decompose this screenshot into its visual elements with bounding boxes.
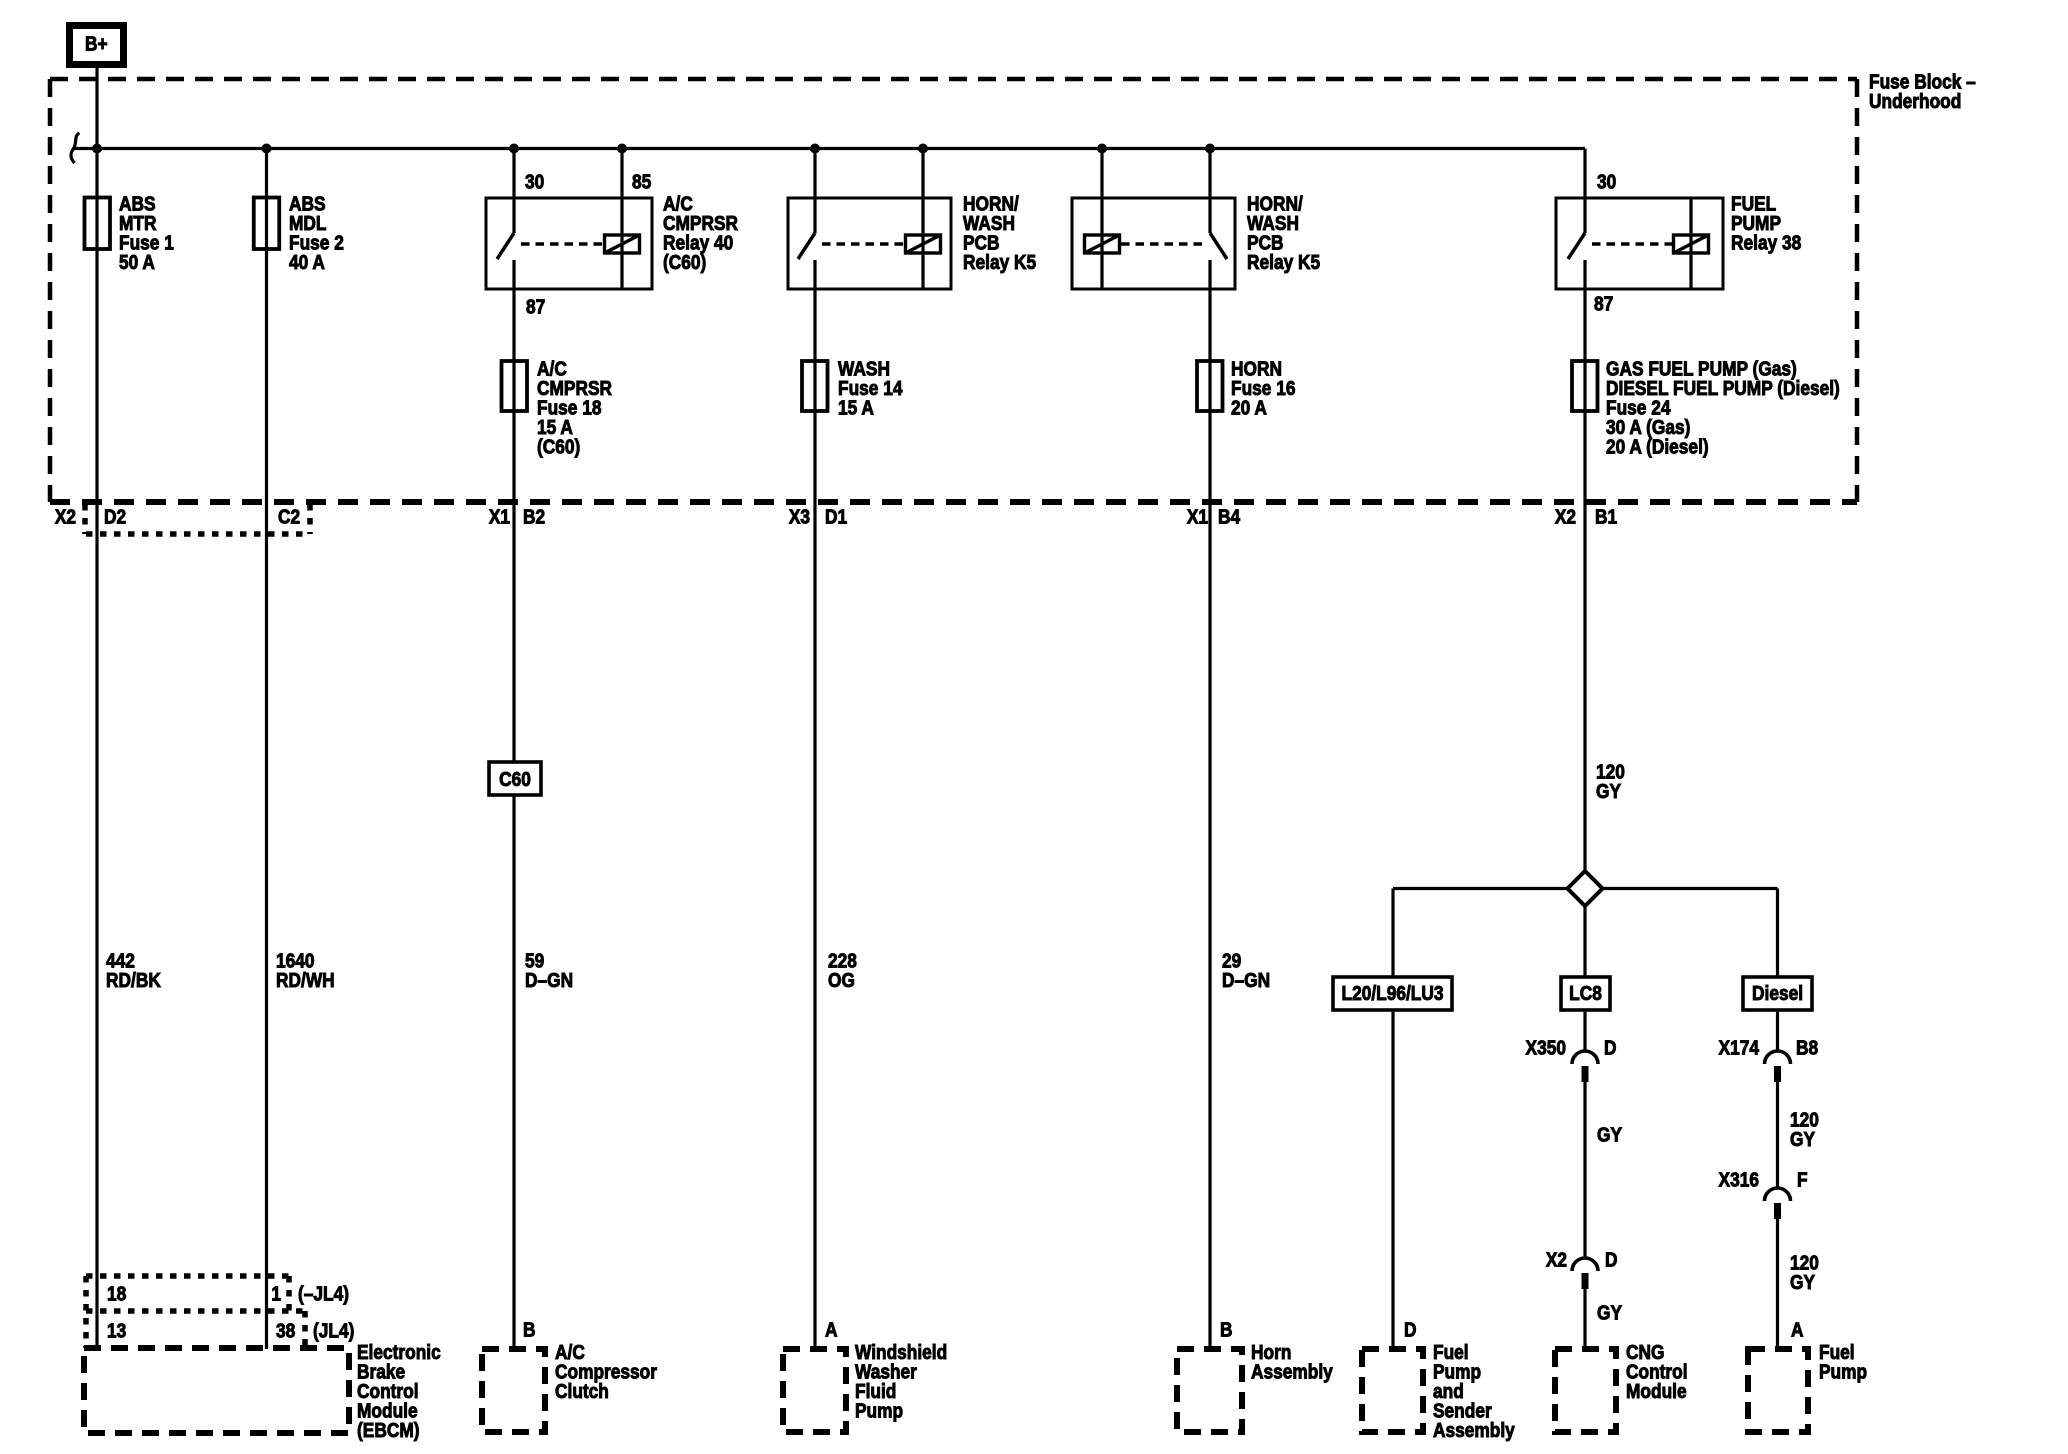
svg-text:Module: Module	[1626, 1381, 1687, 1404]
svg-text:(EBCM): (EBCM)	[357, 1420, 420, 1443]
svg-text:LC8: LC8	[1569, 983, 1602, 1006]
svg-text:X3: X3	[789, 506, 810, 529]
svg-text:B: B	[1220, 1319, 1233, 1342]
svg-text:B4: B4	[1218, 506, 1241, 529]
svg-text:X1: X1	[489, 506, 511, 529]
svg-text:(–JL4): (–JL4)	[298, 1283, 349, 1306]
svg-text:Pump: Pump	[1819, 1361, 1867, 1384]
svg-text:87: 87	[1594, 293, 1613, 316]
svg-text:D: D	[1605, 1249, 1618, 1272]
svg-text:85: 85	[632, 171, 652, 194]
svg-text:B8: B8	[1796, 1037, 1818, 1060]
svg-text:Relay K5: Relay K5	[1247, 252, 1321, 275]
svg-text:Diesel: Diesel	[1752, 983, 1803, 1006]
svg-text:Underhood: Underhood	[1869, 91, 1961, 114]
svg-text:1: 1	[271, 1283, 281, 1306]
svg-text:D: D	[1604, 1037, 1617, 1060]
svg-text:A: A	[825, 1319, 838, 1342]
svg-text:X316: X316	[1719, 1169, 1759, 1192]
svg-text:GY: GY	[1596, 781, 1621, 804]
svg-text:OG: OG	[828, 970, 855, 993]
svg-text:(JL4): (JL4)	[313, 1320, 354, 1343]
svg-text:X2: X2	[55, 506, 76, 529]
svg-text:20 A (Diesel): 20 A (Diesel)	[1606, 436, 1709, 459]
svg-text:Relay 38: Relay 38	[1731, 232, 1801, 255]
svg-text:C2: C2	[278, 506, 300, 529]
svg-text:RD/BK: RD/BK	[106, 970, 161, 993]
svg-text:GY: GY	[1597, 1302, 1622, 1325]
svg-text:50 A: 50 A	[119, 252, 155, 275]
svg-text:X350: X350	[1526, 1037, 1566, 1060]
svg-text:(C60): (C60)	[663, 252, 706, 275]
svg-text:D2: D2	[104, 506, 126, 529]
svg-text:B2: B2	[523, 506, 545, 529]
svg-text:18: 18	[107, 1283, 126, 1306]
svg-text:D1: D1	[825, 506, 848, 529]
svg-text:38: 38	[276, 1320, 295, 1343]
svg-text:15 A: 15 A	[838, 397, 874, 420]
svg-text:D–GN: D–GN	[525, 970, 573, 993]
svg-text:20 A: 20 A	[1231, 397, 1267, 420]
svg-text:87: 87	[526, 296, 545, 319]
svg-text:F: F	[1797, 1169, 1808, 1192]
svg-text:Relay K5: Relay K5	[963, 252, 1037, 275]
svg-text:B1: B1	[1595, 506, 1618, 529]
svg-text:GY: GY	[1790, 1129, 1815, 1152]
svg-text:X2: X2	[1555, 506, 1576, 529]
svg-text:Assembly: Assembly	[1251, 1361, 1333, 1384]
svg-text:40 A: 40 A	[289, 252, 325, 275]
svg-text:X174: X174	[1719, 1037, 1760, 1060]
svg-text:30: 30	[1597, 171, 1616, 194]
svg-text:13: 13	[107, 1320, 126, 1343]
svg-text:X1: X1	[1187, 506, 1209, 529]
svg-text:Clutch: Clutch	[555, 1381, 609, 1404]
svg-text:(C60): (C60)	[537, 436, 580, 459]
svg-text:RD/WH: RD/WH	[276, 970, 335, 993]
svg-text:GY: GY	[1597, 1124, 1622, 1147]
svg-text:B+: B+	[85, 33, 108, 56]
svg-text:A: A	[1791, 1319, 1804, 1342]
svg-text:C60: C60	[499, 769, 531, 792]
svg-text:GY: GY	[1790, 1272, 1815, 1295]
svg-text:L20/L96/LU3: L20/L96/LU3	[1341, 983, 1443, 1006]
svg-text:Pump: Pump	[855, 1400, 903, 1423]
svg-text:D–GN: D–GN	[1222, 970, 1270, 993]
svg-text:B: B	[523, 1319, 536, 1342]
svg-text:D: D	[1404, 1319, 1417, 1342]
svg-text:Assembly: Assembly	[1433, 1420, 1515, 1443]
svg-text:X2: X2	[1546, 1249, 1567, 1272]
svg-text:30: 30	[525, 171, 544, 194]
